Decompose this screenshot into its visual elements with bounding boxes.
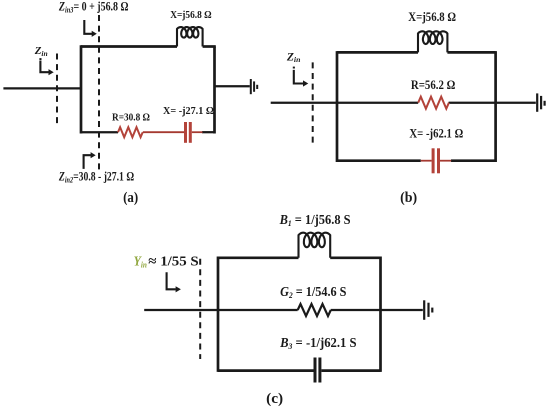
wire right vertical (c) (379, 257, 382, 372)
wire top right (b) (447, 51, 495, 54)
svg-text:Zin2=30.8 - j27.1 Ω: Zin2=30.8 - j27.1 Ω (58, 170, 134, 185)
arrow Zin2 (a) (84, 152, 96, 169)
arrow Zin (a) (39, 58, 53, 75)
svg-text:G2 = 1/54.6 S: G2 = 1/54.6 S (280, 285, 347, 300)
dashed line node Zin (b) (312, 62, 314, 144)
wire top left (a) (81, 45, 177, 48)
svg-text:R=30.8 Ω: R=30.8 Ω (112, 111, 150, 123)
wire bottom left (a) (81, 131, 118, 133)
dashed line node Zin (a) (56, 54, 58, 126)
wire input+middle left (b) (271, 102, 419, 104)
wire bottom right (b) (451, 159, 496, 162)
ground (c) (424, 300, 432, 320)
arrow Yin (c) (167, 272, 181, 292)
resistor R1 (a) R=30.8 (118, 127, 143, 137)
arrow Zin3 (a) (84, 20, 97, 37)
capacitor C2 (b) X=-j62.1 (432, 148, 440, 173)
svg-text:X= -j27.1 Ω: X= -j27.1 Ω (163, 105, 214, 117)
wire top left (b) (337, 51, 418, 54)
wire bottom left (c) (218, 369, 314, 372)
wire input+middle left (c) (144, 309, 298, 311)
svg-text:(c): (c) (266, 391, 283, 407)
arrow Zin (b) (293, 67, 309, 87)
svg-text:(a): (a) (123, 190, 138, 206)
svg-text:≈ 1/55 S: ≈ 1/55 S (148, 254, 199, 269)
wire left vertical (c) (217, 257, 220, 372)
wire red stub right of cap (a) (192, 131, 203, 133)
wire middle right (c) (331, 309, 423, 311)
wire red stub left of cap (b) (421, 160, 432, 162)
wire bottom right (c) (322, 369, 381, 372)
svg-text:Zin3= 0 + j56.8 Ω: Zin3= 0 + j56.8 Ω (58, 0, 128, 14)
capacitor C3 (c) B3 (314, 358, 322, 383)
inductor L3 (c) B1 (299, 233, 331, 258)
wire top left (c) (218, 256, 299, 259)
wire ground tap (a) (215, 85, 250, 87)
wire top right (c) (330, 256, 380, 259)
ground (b) (537, 93, 544, 111)
wire top right (a) (203, 45, 216, 48)
wire red middle (a) (143, 131, 184, 133)
wire bottom right (a) (202, 131, 215, 133)
svg-text:B1 = 1/j56.8 S: B1 = 1/j56.8 S (279, 213, 351, 228)
svg-text:(b): (b) (400, 190, 417, 206)
svg-text:R=56.2 Ω: R=56.2 Ω (411, 77, 456, 92)
wire bottom left (b) (337, 159, 421, 162)
wire left vertical (b) (336, 51, 339, 162)
wire red stub right of cap (b) (440, 160, 451, 162)
resistor R2 (b) R=56.2 (418, 97, 449, 109)
wire right vertical (a) (213, 47, 216, 134)
svg-text:Zin: Zin (286, 51, 301, 64)
svg-text:Yin: Yin (134, 254, 148, 269)
inductor L2 (b) X=j56.8 (418, 31, 447, 52)
dashed line node Zin3/Zin2 (a) (98, 15, 100, 172)
wire left vertical (a) (80, 45, 83, 133)
wire input (a) (3, 87, 81, 89)
svg-text:X=j56.8 Ω: X=j56.8 Ω (408, 9, 456, 24)
svg-text:B3 = -1/j62.1 S: B3 = -1/j62.1 S (279, 336, 357, 351)
svg-text:X= -j62.1 Ω: X= -j62.1 Ω (409, 125, 463, 140)
wire right vertical (b) (494, 51, 497, 162)
svg-text:X=j56.8 Ω: X=j56.8 Ω (170, 9, 212, 21)
wire middle right (b) (449, 102, 536, 104)
svg-text:Zin: Zin (34, 45, 48, 58)
capacitor C1 (a) X=-j27.1 (184, 122, 192, 143)
dashed line node Yin (c) (199, 259, 201, 359)
resistor R3 (c) G2 (298, 304, 331, 316)
ground (a) (251, 79, 257, 94)
inductor L1 (a) X=j56.8 (177, 27, 203, 46)
